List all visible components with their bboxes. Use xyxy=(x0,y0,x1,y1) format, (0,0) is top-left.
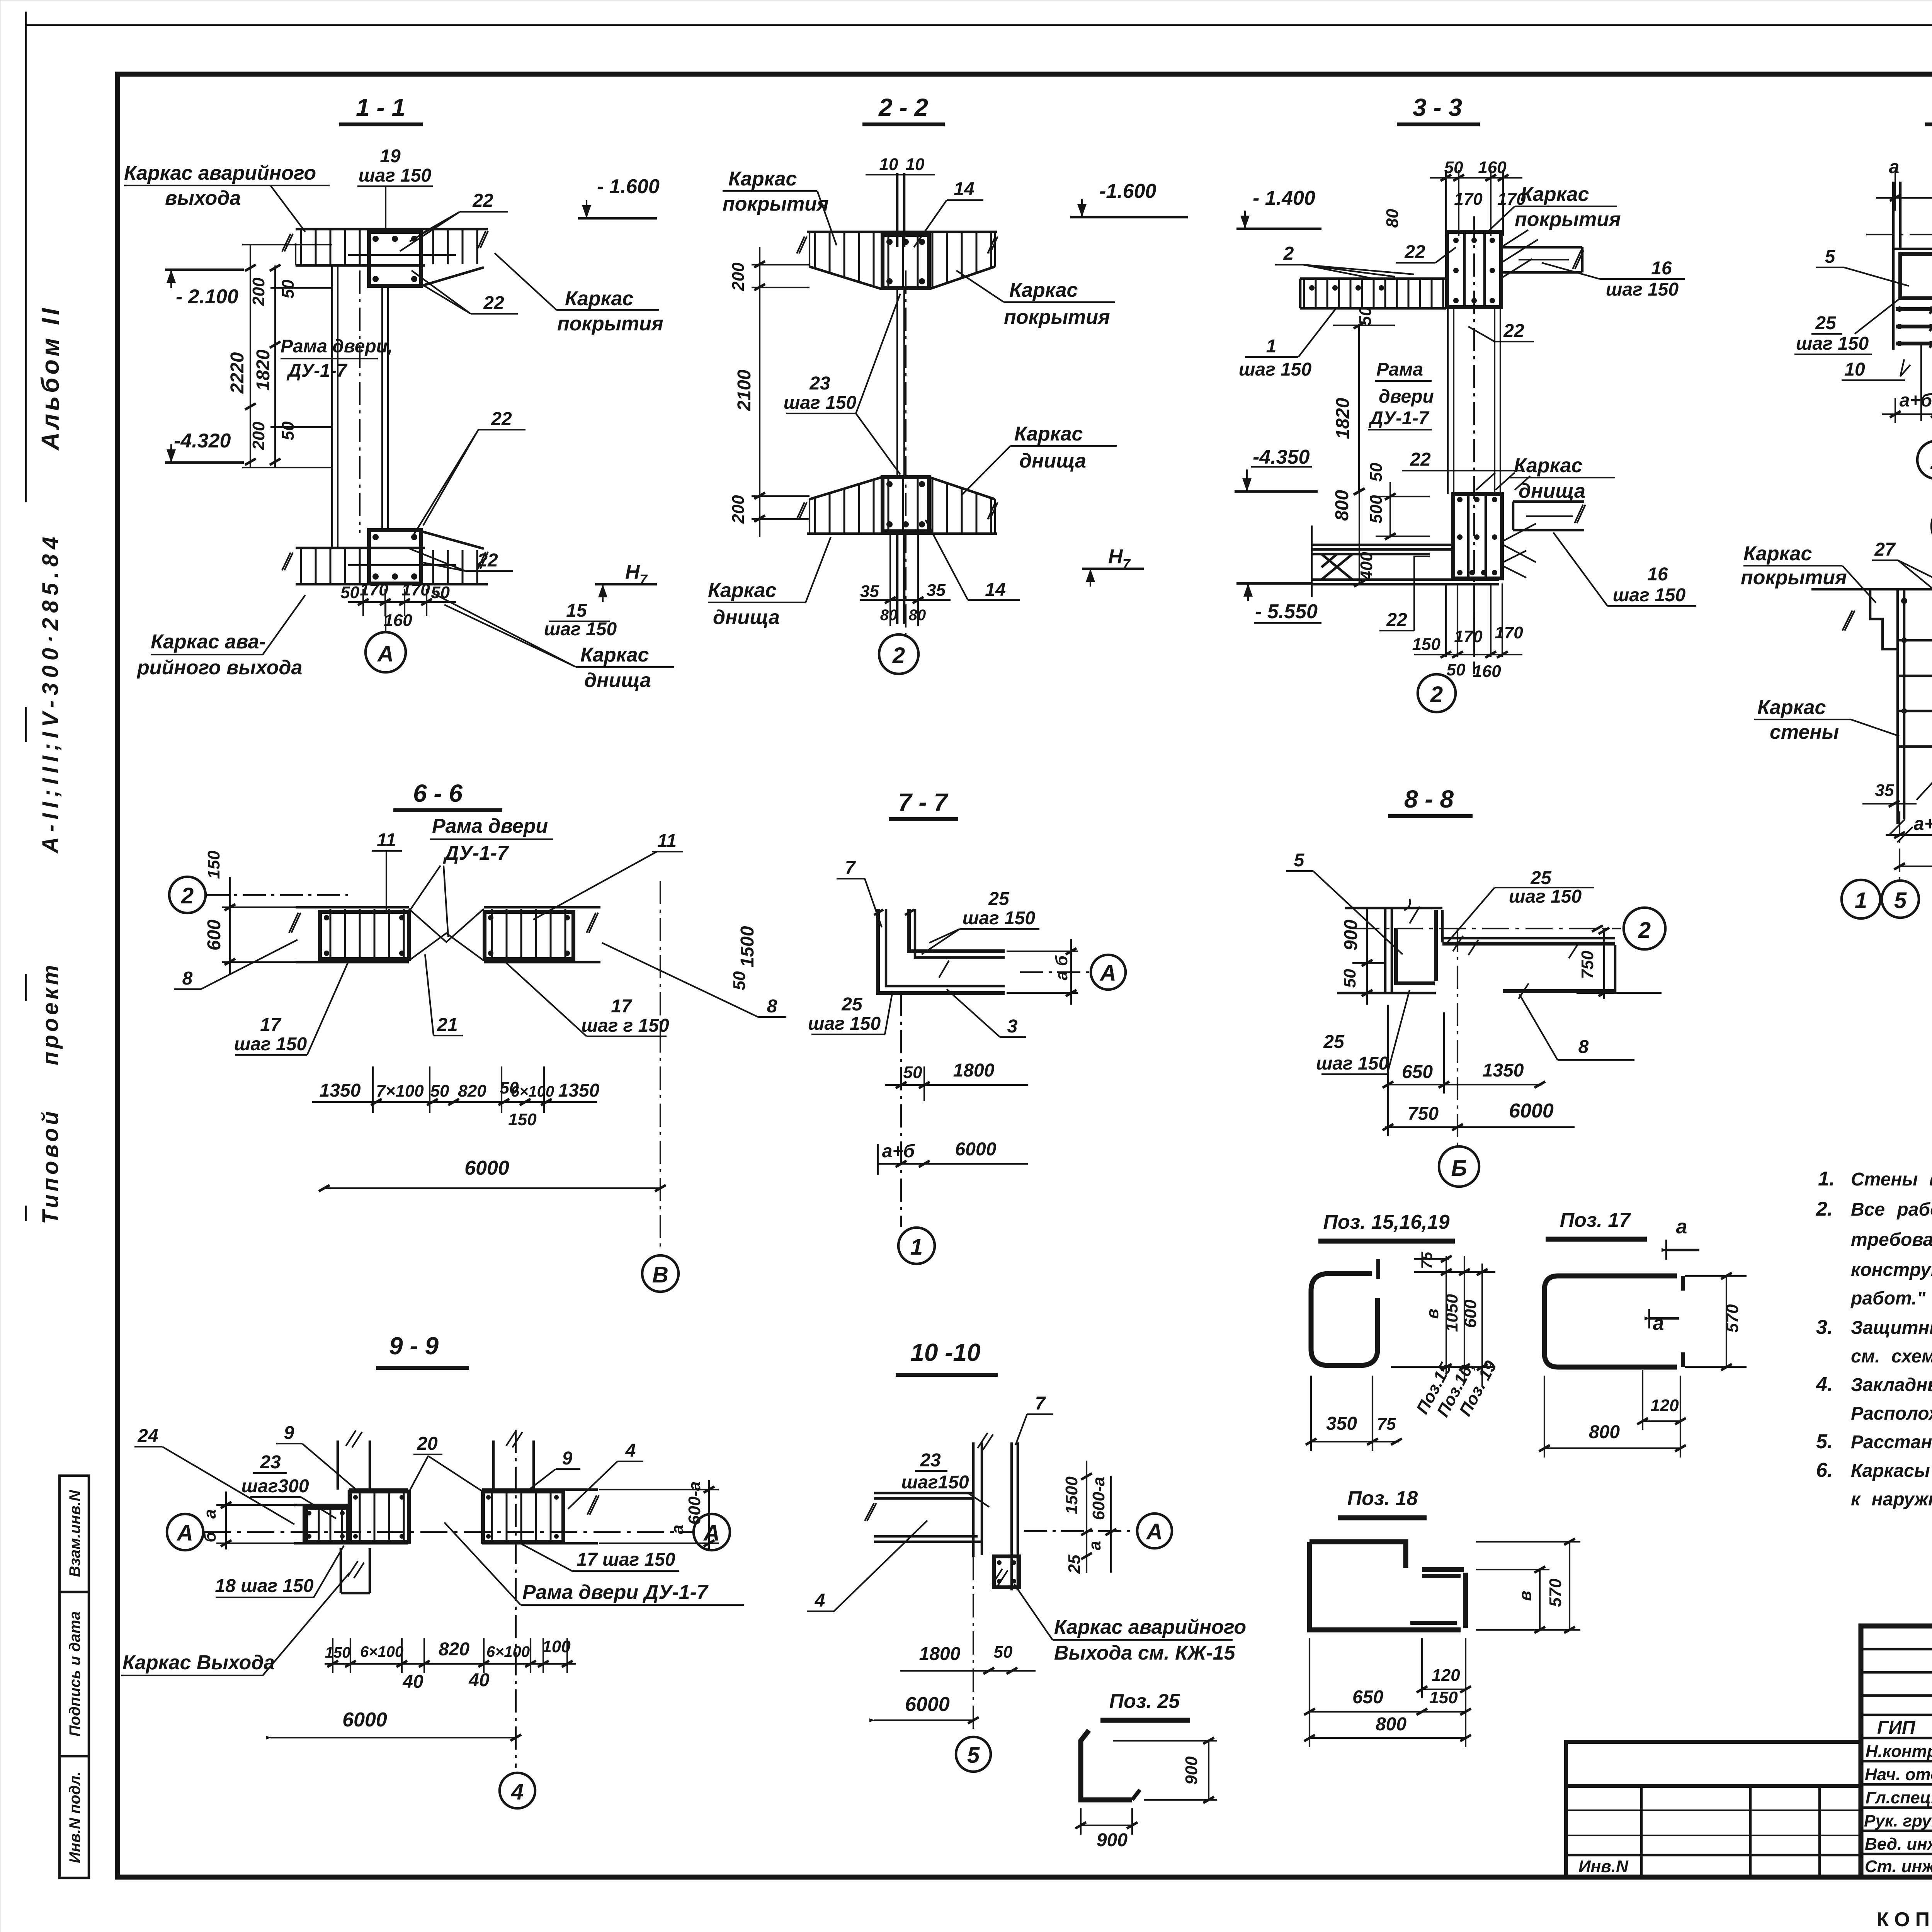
bottom band xyxy=(296,547,425,549)
svg-text:- 1.600: - 1.600 xyxy=(597,175,660,198)
door stub below xyxy=(340,1548,342,1593)
svg-text:6×100: 6×100 xyxy=(511,1083,554,1100)
svg-text:шаг 150: шаг 150 xyxy=(1509,886,1582,907)
svg-text:150: 150 xyxy=(325,1644,351,1661)
svg-text:Поз. 18: Поз. 18 xyxy=(1347,1487,1418,1510)
svg-text:Подпись и дата: Подпись и дата xyxy=(66,1611,83,1736)
svg-text:Каркас аварийного: Каркас аварийного xyxy=(1054,1616,1246,1638)
svg-text:10 -10: 10 -10 xyxy=(910,1338,980,1366)
svg-text:а: а xyxy=(1085,1541,1104,1550)
svg-text:7 - 7: 7 - 7 xyxy=(898,788,949,816)
bent bar xyxy=(1081,1730,1132,1800)
svg-text:А-II;III;IV-300·285.84: А-II;III;IV-300·285.84 xyxy=(38,532,63,854)
svg-text:50: 50 xyxy=(1356,306,1375,325)
svg-text:18 шаг 150: 18 шаг 150 xyxy=(215,1576,313,1596)
svg-text:750: 750 xyxy=(1408,1104,1439,1124)
svg-text:6 - 6: 6 - 6 xyxy=(413,779,463,807)
svg-text:10: 10 xyxy=(906,155,925,174)
svg-text:6.: 6. xyxy=(1816,1459,1833,1481)
svg-text:150: 150 xyxy=(1412,635,1441,654)
svg-text:В: В xyxy=(652,1262,668,1287)
svg-text:-1.600: -1.600 xyxy=(1099,180,1156,202)
svg-text:Каркас: Каркас xyxy=(580,644,649,666)
svg-text:10: 10 xyxy=(879,155,898,174)
svg-text:170: 170 xyxy=(1454,627,1483,646)
svg-text:А: А xyxy=(176,1520,193,1546)
pos 15,16,19 xyxy=(1306,1211,1500,1451)
svg-text:6000: 6000 xyxy=(342,1709,387,1731)
node mark A xyxy=(385,602,386,632)
svg-text:22: 22 xyxy=(477,550,498,571)
top cage xyxy=(883,235,929,288)
right slab каркас днища xyxy=(1513,502,1584,530)
dims 2220/1820/200/50 xyxy=(250,245,251,468)
bottom rebar pairs xyxy=(896,534,899,624)
wall verticals xyxy=(972,1442,975,1557)
svg-text:14: 14 xyxy=(954,179,974,199)
door verticals xyxy=(896,288,898,476)
svg-text:a: a xyxy=(1653,1312,1664,1335)
svg-text:9 - 9: 9 - 9 xyxy=(389,1332,439,1360)
svg-text:шаг 150: шаг 150 xyxy=(1613,585,1686,605)
thick corner bar xyxy=(1396,928,1435,983)
svg-text:стены: стены xyxy=(1770,721,1839,743)
bottom wall cage xyxy=(1453,494,1502,578)
svg-text:к наружной поверхности.: к наружной поверхности. xyxy=(1851,1489,1932,1510)
section 10-10 xyxy=(807,1338,1246,1772)
svg-text:8: 8 xyxy=(767,996,777,1017)
axis circle A xyxy=(1024,1530,1134,1532)
svg-text:23: 23 xyxy=(260,1452,281,1473)
svg-text:80: 80 xyxy=(880,607,898,624)
svg-text:40: 40 xyxy=(402,1672,423,1692)
svg-text:25: 25 xyxy=(1323,1032,1345,1052)
svg-text:покрытия: покрытия xyxy=(1741,566,1847,589)
svg-text:150: 150 xyxy=(508,1110,537,1129)
svg-text:Рама двери ДУ-1-7: Рама двери ДУ-1-7 xyxy=(522,1581,709,1604)
svg-text:1500: 1500 xyxy=(737,926,758,967)
svg-text:650: 650 xyxy=(1402,1062,1433,1082)
corner wall xyxy=(878,909,1005,993)
svg-text:Н: Н xyxy=(625,561,640,583)
svg-text:а б: а б xyxy=(1052,955,1071,980)
svg-text:11: 11 xyxy=(377,830,396,850)
svg-text:5.: 5. xyxy=(1816,1430,1833,1453)
svg-text:Взам.инв.N: Взам.инв.N xyxy=(66,1490,83,1577)
svg-text:22: 22 xyxy=(1503,321,1524,341)
svg-text:900: 900 xyxy=(1097,1830,1128,1850)
svg-text:22: 22 xyxy=(491,409,512,429)
svg-text:7×100: 7×100 xyxy=(376,1082,424,1100)
right slab each side of cage xyxy=(1503,247,1582,272)
svg-text:160: 160 xyxy=(384,611,412,630)
svg-text:покрытия: покрытия xyxy=(557,313,663,335)
dim lines right xyxy=(1446,1256,1447,1376)
svg-text:900: 900 xyxy=(1182,1756,1201,1785)
svg-text:1: 1 xyxy=(1930,449,1932,474)
svg-text:а: а xyxy=(668,1525,687,1534)
svg-text:8: 8 xyxy=(182,968,193,989)
junction cage xyxy=(994,1556,1019,1587)
svg-text:1050: 1050 xyxy=(1442,1294,1461,1332)
axis circle 2 xyxy=(169,877,206,913)
svg-text:2: 2 xyxy=(181,883,194,908)
svg-text:750: 750 xyxy=(1578,951,1597,979)
svg-text:а+б: а+б xyxy=(1900,390,1932,411)
svg-text:50: 50 xyxy=(430,1082,449,1100)
svg-text:600: 600 xyxy=(204,920,224,951)
svg-text:А: А xyxy=(1146,1519,1163,1544)
svg-text:50: 50 xyxy=(1367,463,1386,481)
svg-text:4: 4 xyxy=(625,1440,636,1461)
title block xyxy=(1566,1626,1932,1877)
stepped stirrup xyxy=(1310,1542,1466,1630)
bottom captions xyxy=(1876,1883,1932,1931)
svg-text:Б: Б xyxy=(1451,1156,1467,1181)
svg-text:820: 820 xyxy=(439,1639,469,1660)
node circle 4 xyxy=(500,1773,535,1808)
svg-text:10: 10 xyxy=(1844,359,1865,380)
axis to circle Б xyxy=(1457,929,1458,1146)
axis circles A A xyxy=(167,1514,203,1550)
top band: emergency exit frame xyxy=(296,228,488,231)
bottom break xyxy=(1889,819,1913,842)
wall band right segment xyxy=(484,906,600,909)
svg-text:23: 23 xyxy=(809,373,830,394)
node circle 1 xyxy=(898,1228,935,1264)
svg-text:5: 5 xyxy=(1825,247,1836,267)
svg-text:в: в xyxy=(1516,1591,1535,1601)
svg-text:1800: 1800 xyxy=(953,1060,995,1081)
slab end profile xyxy=(1811,588,1932,591)
svg-text:днища: днища xyxy=(1019,450,1086,472)
svg-text:требований СНиП III-15-76: требований СНиП III-15-76 „ Бетонные и ж… xyxy=(1851,1230,1932,1250)
svg-text:Нач. отд.: Нач. отд. xyxy=(1865,1765,1932,1784)
svg-text:Каркас: Каркас xyxy=(1514,454,1583,477)
svg-text:днища: днища xyxy=(713,606,780,629)
svg-text:7: 7 xyxy=(845,858,856,878)
svg-text:шаг300: шаг300 xyxy=(241,1476,309,1497)
svg-text:200: 200 xyxy=(729,262,748,291)
svg-text:6000: 6000 xyxy=(464,1157,509,1179)
svg-text:17: 17 xyxy=(611,996,633,1017)
left slab xyxy=(1311,526,1313,597)
bottom dim chain xyxy=(312,1101,597,1103)
svg-text:Альбом II: Альбом II xyxy=(36,305,64,451)
svg-text:2.: 2. xyxy=(1816,1198,1833,1220)
stubs above xyxy=(337,1440,339,1490)
section 1-1 xyxy=(124,94,674,692)
svg-text:2100: 2100 xyxy=(734,369,755,411)
svg-text:шаг 150: шаг 150 xyxy=(808,1014,881,1034)
svg-text:50: 50 xyxy=(994,1643,1013,1662)
left dim chain xyxy=(752,264,810,265)
svg-text:15: 15 xyxy=(566,600,587,621)
node circle 1 xyxy=(1917,441,1932,479)
svg-text:покрытия: покрытия xyxy=(1515,208,1621,231)
svg-text:Типовой проект: Типовой проект xyxy=(38,962,63,1224)
wall with rebar grid xyxy=(1896,589,1899,824)
svg-text:Вед. инж.: Вед. инж. xyxy=(1865,1835,1932,1854)
svg-text:Рама двери: Рама двери xyxy=(432,815,548,837)
svg-text:шаг 150: шаг 150 xyxy=(1796,333,1869,354)
bottom cage xyxy=(883,477,929,531)
svg-text:170: 170 xyxy=(401,580,430,599)
axis B xyxy=(660,881,661,1252)
header circle A xyxy=(1932,502,1932,550)
svg-text:1800: 1800 xyxy=(919,1644,961,1664)
svg-text:2 - 2: 2 - 2 xyxy=(878,94,928,121)
svg-text:50: 50 xyxy=(1447,660,1466,679)
svg-text:покрытия: покрытия xyxy=(723,193,829,215)
svg-text:800: 800 xyxy=(1589,1422,1620,1442)
svg-text:Каркасы поз. 3,4,9,24 устан: Каркасы поз. 3,4,9,24 устанавливаются бо… xyxy=(1851,1461,1932,1481)
svg-text:650: 650 xyxy=(1352,1687,1383,1708)
svg-text:днища: днища xyxy=(1519,480,1585,502)
svg-text:1 - 1: 1 - 1 xyxy=(356,94,405,121)
svg-text:800: 800 xyxy=(1332,490,1352,521)
door verticals xyxy=(1447,307,1449,494)
svg-text:600-а: 600-а xyxy=(1089,1477,1108,1520)
svg-text:35: 35 xyxy=(1875,781,1894,800)
section 7-7 xyxy=(808,788,1126,1264)
svg-text:а+б: а+б xyxy=(1914,814,1932,834)
svg-text:двери: двери xyxy=(1379,386,1434,407)
svg-text:25: 25 xyxy=(988,889,1010,909)
chevrons right of cage xyxy=(1503,524,1536,578)
svg-text:1: 1 xyxy=(910,1235,923,1260)
svg-text:Каркас ава-: Каркас ава- xyxy=(151,631,266,653)
svg-text:14: 14 xyxy=(985,580,1005,600)
stirrup C shape xyxy=(1544,1276,1677,1367)
bottom dim chain xyxy=(362,589,364,616)
svg-text:350: 350 xyxy=(1326,1413,1357,1434)
svg-text:16: 16 xyxy=(1647,564,1668,585)
svg-text:20: 20 xyxy=(417,1434,438,1454)
left bottom rotated stamp table xyxy=(60,1476,89,1878)
node circle 2 xyxy=(1473,216,1475,674)
svg-text:Поз. 25: Поз. 25 xyxy=(1109,1690,1180,1713)
svg-text:17 шаг 150: 17 шаг 150 xyxy=(577,1549,675,1570)
pos 25 xyxy=(1075,1690,1217,1850)
svg-text:Ст. инж.: Ст. инж. xyxy=(1865,1857,1932,1876)
svg-text:Каркас: Каркас xyxy=(1009,279,1078,301)
svg-text:22: 22 xyxy=(1410,449,1431,470)
top cage xyxy=(369,232,421,286)
svg-text:Каркас: Каркас xyxy=(1014,423,1083,445)
svg-text:Каркас: Каркас xyxy=(565,287,634,310)
svg-text:800: 800 xyxy=(1376,1714,1406,1735)
svg-text:Защитный слой бетона до: Защитный слой бетона до рабочей арматуры… xyxy=(1851,1318,1932,1338)
svg-text:25: 25 xyxy=(841,994,863,1015)
svg-text:Расположение и привязку их: Расположение и привязку их см. КЖ. 19, к… xyxy=(1851,1403,1932,1424)
svg-text:900: 900 xyxy=(1341,920,1361,951)
svg-text:а+б: а+б xyxy=(882,1141,915,1162)
svg-text:Стены выполняются из монолит: Стены выполняются из монолитного железоб… xyxy=(1851,1169,1932,1190)
svg-text:конструкции монолитные. Общ: конструкции монолитные. Общие правила пр… xyxy=(1851,1260,1932,1280)
svg-text:2220: 2220 xyxy=(227,352,248,394)
svg-text:50: 50 xyxy=(1340,969,1359,988)
svg-text:22: 22 xyxy=(483,293,504,313)
svg-text:Каркас: Каркас xyxy=(728,168,797,190)
svg-text:a: a xyxy=(1676,1216,1687,1238)
svg-text:22: 22 xyxy=(1386,610,1407,630)
svg-text:1: 1 xyxy=(1266,336,1277,357)
svg-text:Инв.N: Инв.N xyxy=(1578,1857,1629,1876)
svg-text:4: 4 xyxy=(511,1779,524,1804)
svg-text:4: 4 xyxy=(815,1590,825,1611)
svg-text:5: 5 xyxy=(1894,888,1907,913)
svg-text:1500: 1500 xyxy=(1062,1476,1081,1514)
svg-text:120: 120 xyxy=(1432,1666,1460,1685)
svg-text:80: 80 xyxy=(1383,209,1402,228)
svg-text:ГИП: ГИП xyxy=(1877,1718,1916,1738)
svg-text:25: 25 xyxy=(1065,1554,1084,1574)
svg-text:80: 80 xyxy=(909,607,926,624)
svg-text:- 2.100: - 2.100 xyxy=(176,286,238,308)
slab horizontals xyxy=(874,1493,981,1542)
top wall cage xyxy=(1447,232,1501,307)
svg-text:Закладные детали и отверстия: Закладные детали и отверстия условно не … xyxy=(1851,1375,1932,1395)
door opening verticals xyxy=(331,265,333,548)
wall plan outline xyxy=(1893,249,1932,350)
node circle 5 xyxy=(956,1737,991,1772)
svg-text:шаг 150: шаг 150 xyxy=(1239,359,1312,380)
svg-text:19: 19 xyxy=(380,146,401,167)
right cage xyxy=(484,1491,563,1542)
svg-text:200: 200 xyxy=(729,495,748,524)
wall band xyxy=(294,1504,349,1507)
left sidebar vertical captions xyxy=(36,305,64,1224)
svg-text:11: 11 xyxy=(657,831,677,851)
svg-text:рийного выхода: рийного выхода xyxy=(136,656,302,679)
svg-text:Каркас: Каркас xyxy=(1520,183,1589,206)
svg-text:570: 570 xyxy=(1546,1578,1565,1607)
svg-text:16: 16 xyxy=(1651,258,1672,279)
svg-text:шаг г 150: шаг г 150 xyxy=(581,1015,669,1036)
svg-text:Каркас: Каркас xyxy=(1743,543,1812,565)
svg-text:600-а: 600-а xyxy=(685,1481,704,1525)
svg-text:выхода: выхода xyxy=(165,187,241,209)
svg-text:2: 2 xyxy=(1283,243,1294,264)
svg-text:шаг 150: шаг 150 xyxy=(1606,279,1679,300)
section 2-2 xyxy=(708,94,1188,674)
svg-text:1350: 1350 xyxy=(558,1080,600,1101)
section 6-6 xyxy=(169,779,786,1292)
svg-text:Каркас аварийного: Каркас аварийного xyxy=(124,162,316,184)
svg-text:50: 50 xyxy=(340,583,359,602)
witness verticals xyxy=(1920,344,1922,421)
svg-text:- 1.400: - 1.400 xyxy=(1253,187,1315,209)
svg-text:2: 2 xyxy=(892,643,905,668)
svg-text:работ.": работ." xyxy=(1850,1288,1926,1309)
svg-text:Н.контр.: Н.контр. xyxy=(1866,1742,1932,1761)
svg-text:25: 25 xyxy=(1530,868,1552,888)
svg-text:ДУ-1-7: ДУ-1-7 xyxy=(286,361,348,381)
svg-text:шаг 150: шаг 150 xyxy=(1316,1053,1389,1074)
svg-text:Инв.N подл.: Инв.N подл. xyxy=(66,1771,83,1863)
svg-text:Н: Н xyxy=(1108,546,1123,568)
svg-text:Поз. 17: Поз. 17 xyxy=(1560,1209,1631,1231)
door gap V marks xyxy=(409,909,484,961)
svg-text:4.: 4. xyxy=(1816,1373,1833,1396)
svg-text:Каркас Выхода: Каркас Выхода xyxy=(122,1651,275,1674)
top band with sloped soffit xyxy=(810,233,995,288)
svg-text:600: 600 xyxy=(1461,1299,1480,1328)
svg-text:6×100: 6×100 xyxy=(486,1643,530,1660)
svg-text:покрытия: покрытия xyxy=(1004,306,1110,328)
svg-text:см. схемы расположения элеме: см. схемы расположения элементов армиров… xyxy=(1851,1346,1932,1367)
svg-text:КОПИРОВАЛ: КОПИРОВАЛ xyxy=(1876,1908,1932,1931)
stirrup outline xyxy=(1311,1274,1378,1366)
axis circle A xyxy=(1020,971,1092,973)
pos 18 xyxy=(1304,1487,1580,1747)
svg-text:3: 3 xyxy=(1007,1016,1018,1037)
svg-text:б: б xyxy=(201,1531,219,1543)
svg-text:a: a xyxy=(1889,157,1900,177)
svg-text:2: 2 xyxy=(1430,682,1443,707)
rebar rows in leg xyxy=(1896,309,1932,344)
svg-text:-4.350: -4.350 xyxy=(1253,446,1310,468)
svg-text:Все работы по бетонированию: Все работы по бетонированию осуществлять… xyxy=(1851,1199,1932,1220)
notes xyxy=(1816,1168,1932,1510)
svg-text:Рама: Рама xyxy=(1376,359,1423,380)
svg-text:100: 100 xyxy=(542,1637,571,1656)
wall band left segment xyxy=(296,906,409,909)
section 4-4 xyxy=(1794,94,1932,479)
svg-text:1350: 1350 xyxy=(1483,1060,1524,1081)
svg-text:1: 1 xyxy=(1855,888,1867,913)
svg-text:120: 120 xyxy=(1650,1396,1679,1415)
svg-text:50: 50 xyxy=(431,583,450,602)
svg-text:27: 27 xyxy=(1874,539,1896,560)
left small cage xyxy=(305,1507,347,1542)
pos 17 xyxy=(1539,1209,1747,1458)
node A detail xyxy=(1741,502,1932,918)
wall outline xyxy=(1345,907,1442,910)
section 3-3 xyxy=(1235,94,1696,712)
svg-text:6000: 6000 xyxy=(905,1693,950,1716)
svg-text:шаг150: шаг150 xyxy=(901,1472,969,1493)
elevation -5.550 xyxy=(1236,582,1312,585)
svg-text:Каркас: Каркас xyxy=(708,579,777,602)
svg-text:75: 75 xyxy=(1377,1415,1396,1434)
svg-text:А: А xyxy=(1099,961,1116,986)
svg-text:170: 170 xyxy=(1495,623,1523,642)
svg-text:1820: 1820 xyxy=(1333,398,1353,439)
svg-text:3 - 3: 3 - 3 xyxy=(1413,94,1462,121)
svg-text:50: 50 xyxy=(903,1063,922,1082)
svg-text:22: 22 xyxy=(1404,242,1425,262)
bottom band xyxy=(810,478,995,532)
svg-text:1.: 1. xyxy=(1818,1168,1835,1190)
svg-text:-4.320: -4.320 xyxy=(174,430,231,452)
svg-text:шаг 150: шаг 150 xyxy=(963,908,1036,929)
svg-text:1820: 1820 xyxy=(253,349,274,391)
section 9-9 xyxy=(121,1332,744,1808)
svg-text:170: 170 xyxy=(360,580,388,599)
svg-text:2: 2 xyxy=(1638,918,1651,943)
svg-text:1350: 1350 xyxy=(320,1080,361,1101)
svg-text:а: а xyxy=(201,1509,219,1519)
svg-text:50: 50 xyxy=(279,279,298,298)
svg-text:ДУ-1-7: ДУ-1-7 xyxy=(443,842,509,864)
svg-text:35: 35 xyxy=(860,582,879,601)
svg-text:ДУ-1-7: ДУ-1-7 xyxy=(1368,408,1430,429)
svg-text:3.: 3. xyxy=(1816,1316,1833,1338)
svg-text:820: 820 xyxy=(458,1082,486,1100)
svg-text:150: 150 xyxy=(204,850,223,879)
